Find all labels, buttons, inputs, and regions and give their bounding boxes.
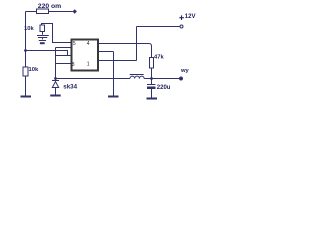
node: diode junction dot <box>54 77 57 80</box>
svg-text:sk34: sk34 <box>63 83 77 90</box>
wire: resistor to ground <box>25 76 27 96</box>
wire: right pin stub to +12V riser <box>98 60 137 62</box>
ground (diode) <box>50 95 61 97</box>
svg-text:8: 8 <box>72 62 75 68</box>
wire: long horizontal from rail to pin7 hook <box>26 51 68 56</box>
wire: pin7 stub <box>56 55 72 57</box>
resistor R4 47k (vertical) <box>150 58 154 69</box>
label + <box>179 15 184 20</box>
wire: resistor to terminal <box>49 11 73 13</box>
wire: ground rail vertical <box>113 52 115 96</box>
ground line <box>39 40 46 42</box>
svg-text:12V: 12V <box>185 14 196 20</box>
wire: 47k to output node <box>151 68 153 79</box>
ground bar (thick) <box>40 42 45 44</box>
wire: vertical bus to diode node <box>55 48 57 79</box>
ground (capacitor) <box>147 98 158 100</box>
resistor R3 10k (vertical, on rail) <box>23 67 28 76</box>
wire: capacitor to ground <box>41 38 43 40</box>
wire: pin8 stub <box>56 63 72 65</box>
wire: right pin stub to ground rail <box>98 51 114 53</box>
capacitor C2 220u plate top <box>147 84 156 86</box>
node: junction dot on rail <box>24 49 27 52</box>
wire: output node to capacitor <box>151 79 153 85</box>
svg-text:10k: 10k <box>29 67 39 73</box>
wire: capacitor to ground <box>151 89 153 98</box>
resistor R1 220 om (horizontal) <box>37 9 49 14</box>
diode D1 triangle <box>52 82 58 88</box>
wire: +12V riser <box>136 27 138 61</box>
wire: inductor to output node <box>144 78 151 80</box>
wire: resistor to capacitor <box>42 32 44 35</box>
resistor R2 10k (vertical) <box>40 25 45 32</box>
capacitor C2 220u plate bottom (thick) <box>147 87 156 90</box>
svg-text:10k: 10k <box>24 26 34 32</box>
svg-text:5: 5 <box>73 41 76 47</box>
inductor L1 bumps <box>130 76 144 78</box>
svg-text:220u: 220u <box>157 85 171 91</box>
wire: switch node horizontal to inductor <box>56 78 131 80</box>
IC U1 body <box>72 40 99 71</box>
capacitor C1 plate top <box>37 35 49 37</box>
node: output junction dot <box>150 77 153 80</box>
wire: pin6 stub <box>56 47 72 49</box>
node: +12V terminal (ring) <box>180 25 183 28</box>
wire: output node to wy terminal <box>152 78 180 80</box>
capacitor C1 plate bottom <box>38 37 47 39</box>
wire: top horizontal to 220ohm resistor <box>26 11 37 13</box>
svg-text:1: 1 <box>87 62 90 68</box>
wire: jog over upper 10k resistor to IC pin 5 <box>42 24 72 43</box>
wire: top-left vertical rail <box>25 12 27 68</box>
wire: right pin stub to 47k <box>98 44 152 58</box>
wire: diode leads <box>55 79 57 95</box>
wire: +12V horizontal <box>137 26 180 28</box>
svg-text:47k: 47k <box>154 54 164 60</box>
svg-text:wy: wy <box>180 68 190 74</box>
inductor L1 core bar <box>130 74 144 76</box>
svg-text:220 om: 220 om <box>38 3 61 10</box>
ground (rail) <box>21 96 32 98</box>
diode D1 cathode bar <box>52 80 59 82</box>
svg-text:4: 4 <box>87 41 90 47</box>
node: top terminal (diamond) <box>73 9 77 13</box>
node: wy terminal (dot) <box>179 77 183 81</box>
ground (rail) <box>108 96 119 98</box>
